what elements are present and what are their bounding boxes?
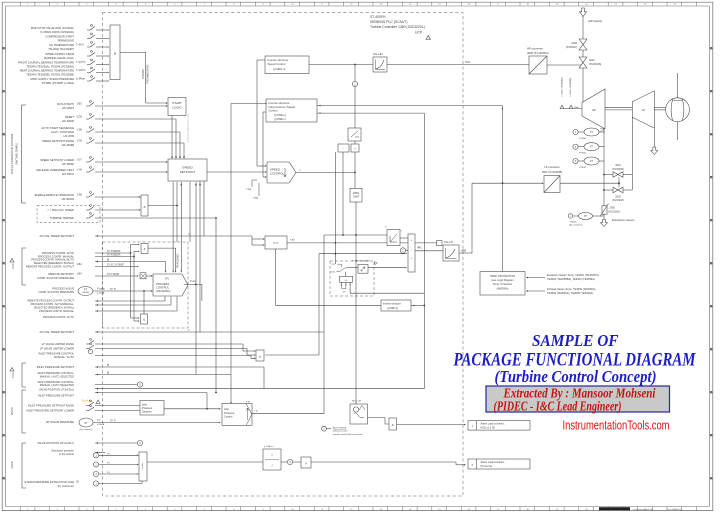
svg-text:TURBINE TRIPPED: TURBINE TRIPPED xyxy=(50,216,74,220)
svg-text:BI: BI xyxy=(107,365,110,367)
svg-text:&: & xyxy=(144,247,146,251)
svg-text:INTERLOCKING FROM: INTERLOCKING FROM xyxy=(45,52,75,56)
svg-text:1-SB: 1-SB xyxy=(77,193,83,196)
svg-text:ACTUAL SPEED SETPOINT: ACTUAL SPEED SETPOINT xyxy=(39,234,74,238)
svg-text:FCS: FCS xyxy=(11,263,15,268)
svg-text:4-20mA: 4-20mA xyxy=(97,292,105,295)
svg-text:n set: n set xyxy=(246,188,252,191)
svg-text:FunctionalDiag: FunctionalDiag xyxy=(667,508,682,511)
svg-text:VALVE POSITION LP (HCE p): VALVE POSITION LP (HCE p) xyxy=(39,387,74,391)
svg-text:1-BA: 1-BA xyxy=(77,272,83,275)
svg-text:1-DG: 1-DG xyxy=(77,139,83,142)
svg-text:SY TI: SY TI xyxy=(110,420,116,422)
svg-text:4-20mA: 4-20mA xyxy=(97,423,105,426)
svg-text:COMP. SUCTION PRESSURE: COMP. SUCTION PRESSURE xyxy=(38,290,74,294)
svg-text:HS 3000T: HS 3000T xyxy=(62,106,74,110)
svg-text:(XV3220S): (XV3220S) xyxy=(608,210,620,213)
svg-text:Extraction Steam Temp. TE3061: Extraction Steam Temp. TE3061 (TE3025TA)… xyxy=(547,273,600,277)
svg-text:OR: OR xyxy=(332,264,336,266)
svg-text:(A6939A)): (A6939A)) xyxy=(497,287,509,291)
svg-text:&: & xyxy=(143,318,145,322)
svg-text:(XV3021I): (XV3021I) xyxy=(566,46,577,49)
svg-text:SY XS3025A: SY XS3025A xyxy=(107,254,121,257)
svg-text:LP VALVE LIMITER: LP VALVE LIMITER xyxy=(352,260,370,263)
svg-text:Inlet: Inlet xyxy=(224,407,229,411)
svg-text:RATE: RATE xyxy=(353,192,360,195)
svg-text:(Inlet pressure /: (Inlet pressure / xyxy=(333,430,349,433)
svg-text:InstrumentationTools: InstrumentationTools xyxy=(633,508,654,511)
svg-text:TE3094 (TE3026A), TE0095 (TE30: TE3094 (TE3026A), TE0095 (TE3026A) xyxy=(547,291,593,295)
svg-text:(by customer): (by customer) xyxy=(80,428,93,431)
svg-text:PROCESS CONTR. AUTO/MANUAL,: PROCESS CONTR. AUTO/MANUAL, xyxy=(31,302,75,306)
svg-text:REMOTE PROCESS CONTR. OUTPUT: REMOTE PROCESS CONTR. OUTPUT xyxy=(26,265,75,269)
svg-text:HP: HP xyxy=(592,108,596,112)
svg-text:INLET PRESSURE CONTROL: INLET PRESSURE CONTROL xyxy=(38,352,74,356)
svg-text:INLET PRESSURE SETPOINT: INLET PRESSURE SETPOINT xyxy=(38,393,74,397)
svg-text:LP VALVE LIMITER LOWER: LP VALVE LIMITER LOWER xyxy=(40,347,74,351)
svg-text:p>34bar: p>34bar xyxy=(76,78,85,81)
svg-text:AUTO START SEQUENCE: AUTO START SEQUENCE xyxy=(41,126,74,130)
svg-text:Speed Control: Speed Control xyxy=(268,62,286,66)
svg-text:(PIC3225G): (PIC3225G) xyxy=(156,289,170,293)
svg-text:Temp. Protection: Temp. Protection xyxy=(493,282,513,286)
svg-text:PT: PT xyxy=(84,288,88,291)
svg-text:SWYT-MSL 3654416: SWYT-MSL 3654416 xyxy=(17,143,19,165)
svg-text:START: START xyxy=(141,69,145,79)
svg-text:Control: Control xyxy=(269,109,278,113)
svg-text:HS 3003J: HS 3003J xyxy=(62,172,74,176)
svg-text:KG-LP: KG-LP xyxy=(444,240,453,244)
svg-text:InstrumentationTools.com: InstrumentationTools.com xyxy=(187,114,190,143)
svg-text:(y=HRE n): (y=HRE n) xyxy=(274,118,286,121)
svg-text:VALVE POSITION HP (HCE n): VALVE POSITION HP (HCE n) xyxy=(37,441,74,445)
svg-text:speed control) Matrix selected: speed control) Matrix selected xyxy=(333,433,363,436)
svg-text:Extraction steam: Extraction steam xyxy=(612,218,635,222)
svg-text:T>35°C: T>35°C xyxy=(76,44,84,47)
svg-text:PT3002: PT3002 xyxy=(579,153,587,155)
svg-text:SELECTED (FEEDBACK SIGNAL): SELECTED (FEEDBACK SIGNAL) xyxy=(34,261,74,265)
svg-text:RESET: RESET xyxy=(65,115,74,119)
svg-text:SPEED SETPOINT LOWER: SPEED SETPOINT LOWER xyxy=(40,158,74,162)
svg-text:1-BA: 1-BA xyxy=(77,263,83,266)
svg-text:INLET PRESSURE SETPOINT LOWER: INLET PRESSURE SETPOINT LOWER xyxy=(26,409,74,413)
svg-text:RELEASE OVERSPEED TEST: RELEASE OVERSPEED TEST xyxy=(37,168,75,172)
svg-text:SETPOINT: SETPOINT xyxy=(180,170,196,174)
svg-text:OIL TEMPERATURE: OIL TEMPERATURE xyxy=(49,43,74,47)
svg-text:median: median xyxy=(142,463,144,470)
svg-text:TAL3040 (TAL3024P): TAL3040 (TAL3024P) xyxy=(48,47,74,51)
svg-text:HCA: HCA xyxy=(465,61,470,64)
svg-text:P out: P out xyxy=(190,280,196,283)
svg-text:CONTROL: CONTROL xyxy=(156,286,170,290)
svg-text:LOGIC: LOGIC xyxy=(172,106,182,110)
svg-text:HG p LM: HG p LM xyxy=(352,401,361,403)
svg-text:PT: PT xyxy=(84,422,88,425)
svg-text:INLET PRESSURE SETPOINT RAISE: INLET PRESSURE SETPOINT RAISE xyxy=(28,404,74,408)
svg-text:FRONT JOURNAL BEARING TEMPERAT: FRONT JOURNAL BEARING TEMPERATURE xyxy=(18,61,74,65)
svg-text:BI: BI xyxy=(107,373,110,375)
svg-text:P3 too low: P3 too low xyxy=(481,465,493,468)
svg-text:< > MIN GOV. SPEED: < > MIN GOV. SPEED xyxy=(47,208,74,212)
svg-text:SPEED: SPEED xyxy=(182,166,193,170)
svg-text:1-BS: 1-BS xyxy=(77,102,83,105)
svg-text:PROCESS CONTR. MANUAL/AUTO: PROCESS CONTR. MANUAL/AUTO xyxy=(31,258,74,262)
svg-text:REMOTE SETPOINT: REMOTE SETPOINT xyxy=(48,272,74,276)
svg-text:UCP: UCP xyxy=(415,31,423,35)
svg-text:CONTROL: CONTROL xyxy=(270,172,285,176)
svg-text:ENABLE REMOTE OPERATION: ENABLE REMOTE OPERATION xyxy=(35,193,74,197)
svg-text:(P): (P) xyxy=(165,277,169,281)
svg-text:n>120% (3009A/BA): n>120% (3009A/BA) xyxy=(561,77,564,96)
svg-text:LP-converter: LP-converter xyxy=(544,165,559,169)
svg-text:Inverse structure: Inverse structure xyxy=(383,303,401,306)
svg-text:K·C: K·C xyxy=(273,241,279,245)
svg-text:2050: 2050 xyxy=(610,207,616,210)
svg-text:INLET PRESSURE CONTROL,: INLET PRESSURE CONTROL, xyxy=(38,371,75,375)
svg-text:HS 3009B: HS 3009B xyxy=(62,143,74,147)
svg-text:T<120°C: T<120°C xyxy=(76,69,86,72)
svg-text:(y=HRH n): (y=HRH n) xyxy=(273,67,285,71)
svg-text:SY HY3036: SY HY3036 xyxy=(107,274,120,276)
svg-text:HS 3001D: HS 3001D xyxy=(62,197,74,201)
svg-text:MANUAL / AUTO: MANUAL / AUTO xyxy=(54,355,74,359)
svg-text:(PIDEC - I&C Lead Engineer): (PIDEC - I&C Lead Engineer) xyxy=(494,398,622,413)
svg-text:3000: 3000 xyxy=(589,59,595,62)
svg-text:VoiCE: VoiCE xyxy=(10,461,14,468)
svg-text:HRB: HRB xyxy=(461,250,466,253)
svg-text:P comp: P comp xyxy=(97,289,105,291)
svg-text:PROCESS: PROCESS xyxy=(156,282,169,286)
svg-text:PT3002: PT3002 xyxy=(579,138,587,140)
svg-text:1-YB: 1-YB xyxy=(77,168,83,171)
svg-text:SPEED SETPOINT RAISE: SPEED SETPOINT RAISE xyxy=(42,139,74,143)
svg-text:TE3045 (TE3055A), TE3046 (TE30: TE3045 (TE3055A), TE3046 (TE3055A) xyxy=(26,64,74,68)
svg-text:1-DG: 1-DG xyxy=(77,115,83,118)
svg-text:SY XS3025A: SY XS3025A xyxy=(107,250,121,253)
svg-text:--: -- xyxy=(343,148,345,151)
svg-text:ACTUAL SPEED SETPOINT: ACTUAL SPEED SETPOINT xyxy=(39,330,74,334)
svg-text:Exhaust Steam Temp. TE3092 (TE: Exhaust Steam Temp. TE3092 (TE3026A), xyxy=(547,287,596,291)
svg-text:BARRING GEAR LOGIC: BARRING GEAR LOGIC xyxy=(44,56,74,60)
svg-text:COMP. SUCTION PRESSURE: COMP. SUCTION PRESSURE xyxy=(37,276,74,280)
svg-text:BI: BI xyxy=(77,480,80,483)
svg-text:3600 (SY3200DA): 3600 (SY3200DA) xyxy=(527,51,549,55)
svg-text:(by customer): (by customer) xyxy=(569,224,583,227)
svg-text:OdQ: OdQ xyxy=(331,271,336,273)
svg-text:(y=HRE p): (y=HRE p) xyxy=(274,114,286,117)
svg-text:PERMISSIVE: PERMISSIVE xyxy=(146,65,150,84)
svg-text:SY TI: SY TI xyxy=(110,289,116,291)
svg-text:√: √ xyxy=(271,464,273,468)
svg-text:SY SC XY3006T: SY SC XY3006T xyxy=(107,265,125,267)
svg-text:(SV3030Z): (SV3030Z) xyxy=(612,168,624,171)
svg-text:(Turbine Control Concept): (Turbine Control Concept) xyxy=(495,367,657,386)
svg-text:Alarm Load is limited,: Alarm Load is limited, xyxy=(481,461,505,464)
svg-text:HS 3009: HS 3009 xyxy=(64,134,75,138)
svg-text:SAMPLE OF: SAMPLE OF xyxy=(532,331,619,350)
svg-text:Alarm Load is limited,: Alarm Load is limited, xyxy=(481,423,505,426)
svg-text:PT3002: PT3002 xyxy=(579,167,587,169)
svg-text:InstrumentationTools.com: InstrumentationTools.com xyxy=(563,419,670,433)
svg-text:P M: P M xyxy=(246,401,250,403)
svg-text:% OPEN 2000S (XZS3021I): % OPEN 2000S (XZS3021I) xyxy=(40,30,74,34)
svg-text:STEAM PRESSURE EXTRACTION LINE: STEAM PRESSURE EXTRACTION LINE xyxy=(24,480,74,484)
svg-text:PERMISSIVE: PERMISSIVE xyxy=(58,38,75,42)
svg-text:T<107°C: T<107°C xyxy=(76,61,86,64)
svg-text:S7-400FH: S7-400FH xyxy=(370,15,386,19)
svg-text:HALT / CONTINUE: HALT / CONTINUE xyxy=(51,130,74,134)
svg-text:LIMIT: LIMIT xyxy=(353,196,360,199)
svg-text:(by customer): (by customer) xyxy=(58,484,75,488)
svg-text:BI: BI xyxy=(107,260,110,262)
svg-text:P3006: P3006 xyxy=(570,221,577,223)
svg-text:LP VALVE LIMITER RAISE: LP VALVE LIMITER RAISE xyxy=(42,342,75,346)
svg-text:Turbine Controller 1350 (S3C32: Turbine Controller 1350 (S3C3220L) xyxy=(370,25,425,29)
svg-text:RUN (START): RUN (START) xyxy=(57,102,74,106)
svg-text:&: & xyxy=(392,423,394,427)
svg-text:3000: 3000 xyxy=(574,107,580,109)
svg-text:PROCESS CONTR. MANUAL: PROCESS CONTR. MANUAL xyxy=(39,309,74,313)
svg-text:Pressure: Pressure xyxy=(142,406,153,410)
svg-text:LP: LP xyxy=(642,108,645,112)
svg-text:in the turbine: in the turbine xyxy=(59,452,75,456)
svg-text:PROCESS VALUE: PROCESS VALUE xyxy=(52,287,74,291)
svg-text:&: & xyxy=(259,354,261,358)
svg-text:-: - xyxy=(411,248,412,251)
svg-text:1-GY: 1-GY xyxy=(77,158,83,161)
svg-text:SIEMENS PLC (SCAUT): SIEMENS PLC (SCAUT) xyxy=(370,20,408,24)
svg-text:HRC: HRC xyxy=(417,247,422,249)
svg-text:(y=HRH p): (y=HRH p) xyxy=(387,308,398,310)
svg-text:WVCC: WVCC xyxy=(10,407,14,415)
svg-text:MANUAL / AUTO SELECTED: MANUAL / AUTO SELECTED xyxy=(40,375,74,379)
svg-text:TE3062 (TE3059BA), TE3063 (TE3: TE3062 (TE3059BA), TE3063 (TE3059A) xyxy=(547,277,595,281)
svg-text:2000: 2000 xyxy=(571,42,577,45)
svg-text:MANUAL / AUTO SELECTED: MANUAL / AUTO SELECTED xyxy=(40,383,74,387)
svg-text:PROCESS CONTR. AUTO: PROCESS CONTR. AUTO xyxy=(42,251,74,255)
svg-text:(HP-Steam): (HP-Steam) xyxy=(588,19,602,23)
svg-text:(SV3020S): (SV3020S) xyxy=(589,63,601,66)
svg-text:Extraction pressure: Extraction pressure xyxy=(52,449,75,453)
svg-text:HCE ≤1 3.95: HCE ≤1 3.95 xyxy=(481,427,496,430)
svg-text:MAIN STOP VALVE 2000 (XV3021I): MAIN STOP VALVE 2000 (XV3021I) xyxy=(31,26,74,30)
svg-text:INLET PRESSURE SETPOINT: INLET PRESSURE SETPOINT xyxy=(37,365,75,369)
svg-text:Control: Control xyxy=(224,415,233,419)
svg-text:REMOTE PROCESS CONTR. OUTPUT: REMOTE PROCESS CONTR. OUTPUT xyxy=(27,299,74,303)
svg-text:MAIN SUPPLY STEAM PRESSURE: MAIN SUPPLY STEAM PRESSURE xyxy=(31,77,75,81)
svg-text:SELECTED (FEEDBACK SIGNAL): SELECTED (FEEDBACK SIGNAL) xyxy=(34,306,74,310)
svg-text:Inlet: Inlet xyxy=(142,403,147,407)
svg-text:≈: ≈ xyxy=(271,453,273,457)
svg-text:HP STEAM PRESSURE: HP STEAM PRESSURE xyxy=(46,420,74,424)
svg-text:TEMP. PROTECTION: TEMP. PROTECTION xyxy=(490,274,515,278)
svg-text:TE3049 (TE3055B), TE3050 (TE30: TE3049 (TE3055B), TE3050 (TE3055B) xyxy=(26,72,74,76)
svg-text:FCS: FCS xyxy=(11,372,15,377)
svg-text:1601 (SY3200IB): 1601 (SY3200IB) xyxy=(542,170,563,174)
svg-text:n>110% (3009B/BB): n>110% (3009B/BB) xyxy=(569,77,572,96)
svg-text:KG-HP: KG-HP xyxy=(373,52,383,56)
svg-text:PT3081 (PT3055) p>34bar: PT3081 (PT3055) p>34bar xyxy=(42,81,74,85)
svg-text:HS 3009F: HS 3009F xyxy=(62,162,74,166)
svg-text:AUTO MODE: AUTO MODE xyxy=(333,426,347,429)
svg-text:0001: 0001 xyxy=(615,164,621,167)
svg-text:p 17/A-b u: p 17/A-b u xyxy=(264,445,274,448)
svg-text:0002: 0002 xyxy=(615,195,621,198)
svg-text:1-SB: 1-SB xyxy=(77,128,83,131)
svg-text:&: & xyxy=(143,205,145,209)
svg-text:Setpoint: Setpoint xyxy=(142,410,152,414)
svg-text:τ ad: τ ad xyxy=(290,239,295,242)
svg-text:LOCAL OPERATOR STATION: LOCAL OPERATOR STATION xyxy=(10,134,14,175)
svg-text:REAR JOURNAL BEARING TEMPERATU: REAR JOURNAL BEARING TEMPERATURE xyxy=(20,69,75,73)
svg-text:PROCESS CONTR. AUTO: PROCESS CONTR. AUTO xyxy=(43,315,74,319)
svg-text:START: START xyxy=(172,101,182,105)
svg-text:HP-converter: HP-converter xyxy=(527,47,543,51)
svg-text:n act: n act xyxy=(253,197,259,200)
svg-text:TRACKING: TRACKING xyxy=(176,253,180,269)
svg-text:Pressure: Pressure xyxy=(224,411,235,415)
svg-text:HS 30006: HS 30006 xyxy=(62,119,74,123)
svg-text:COMPRESSOR START: COMPRESSOR START xyxy=(45,35,74,39)
svg-text:(see Logic Diagram: (see Logic Diagram xyxy=(491,278,514,282)
svg-text:(SV3220Z): (SV3220Z) xyxy=(612,199,624,202)
svg-text:3004A: 3004A xyxy=(82,291,89,294)
